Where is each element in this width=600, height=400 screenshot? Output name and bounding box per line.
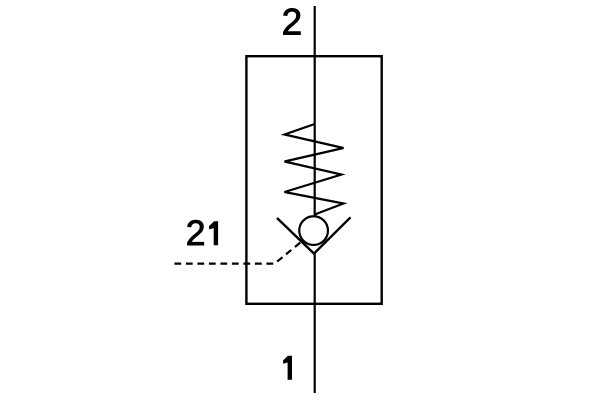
- label 1 (port 1): [283, 356, 292, 380]
- wire: port 1 line (bottom): [314, 254, 316, 394]
- spring: [285, 124, 344, 215]
- svg-text:2: 2: [186, 213, 206, 253]
- svg-text:2: 2: [282, 1, 303, 42]
- valve body rectangle: [246, 56, 381, 304]
- wire: port 2 line (top): [314, 6, 316, 216]
- label 21: digit 1: [209, 221, 218, 245]
- check valve ball: [299, 216, 328, 245]
- pilot line (dashed) port 21: [174, 242, 301, 264]
- valve seat: [277, 217, 351, 253]
